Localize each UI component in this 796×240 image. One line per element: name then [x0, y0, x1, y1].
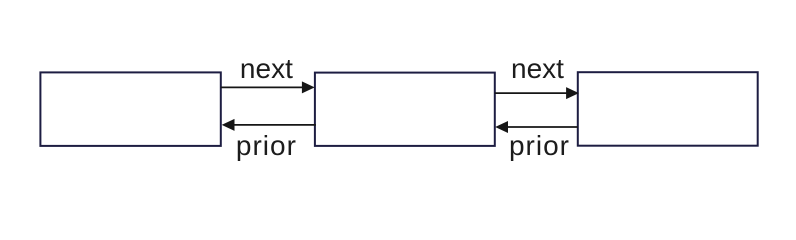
svg-text:next: next	[511, 53, 564, 84]
svg-text:next: next	[240, 53, 293, 84]
wire arrow next 1	[221, 81, 315, 93]
wire arrow prior 2	[495, 121, 578, 133]
wire arrow next 2	[495, 87, 579, 99]
node box 1	[40, 72, 220, 145]
wire arrow prior 1	[222, 119, 316, 131]
svg-text:prior: prior	[236, 130, 297, 161]
node box 2	[315, 73, 495, 146]
svg-text:prior: prior	[509, 130, 570, 161]
node box 3	[578, 72, 758, 146]
